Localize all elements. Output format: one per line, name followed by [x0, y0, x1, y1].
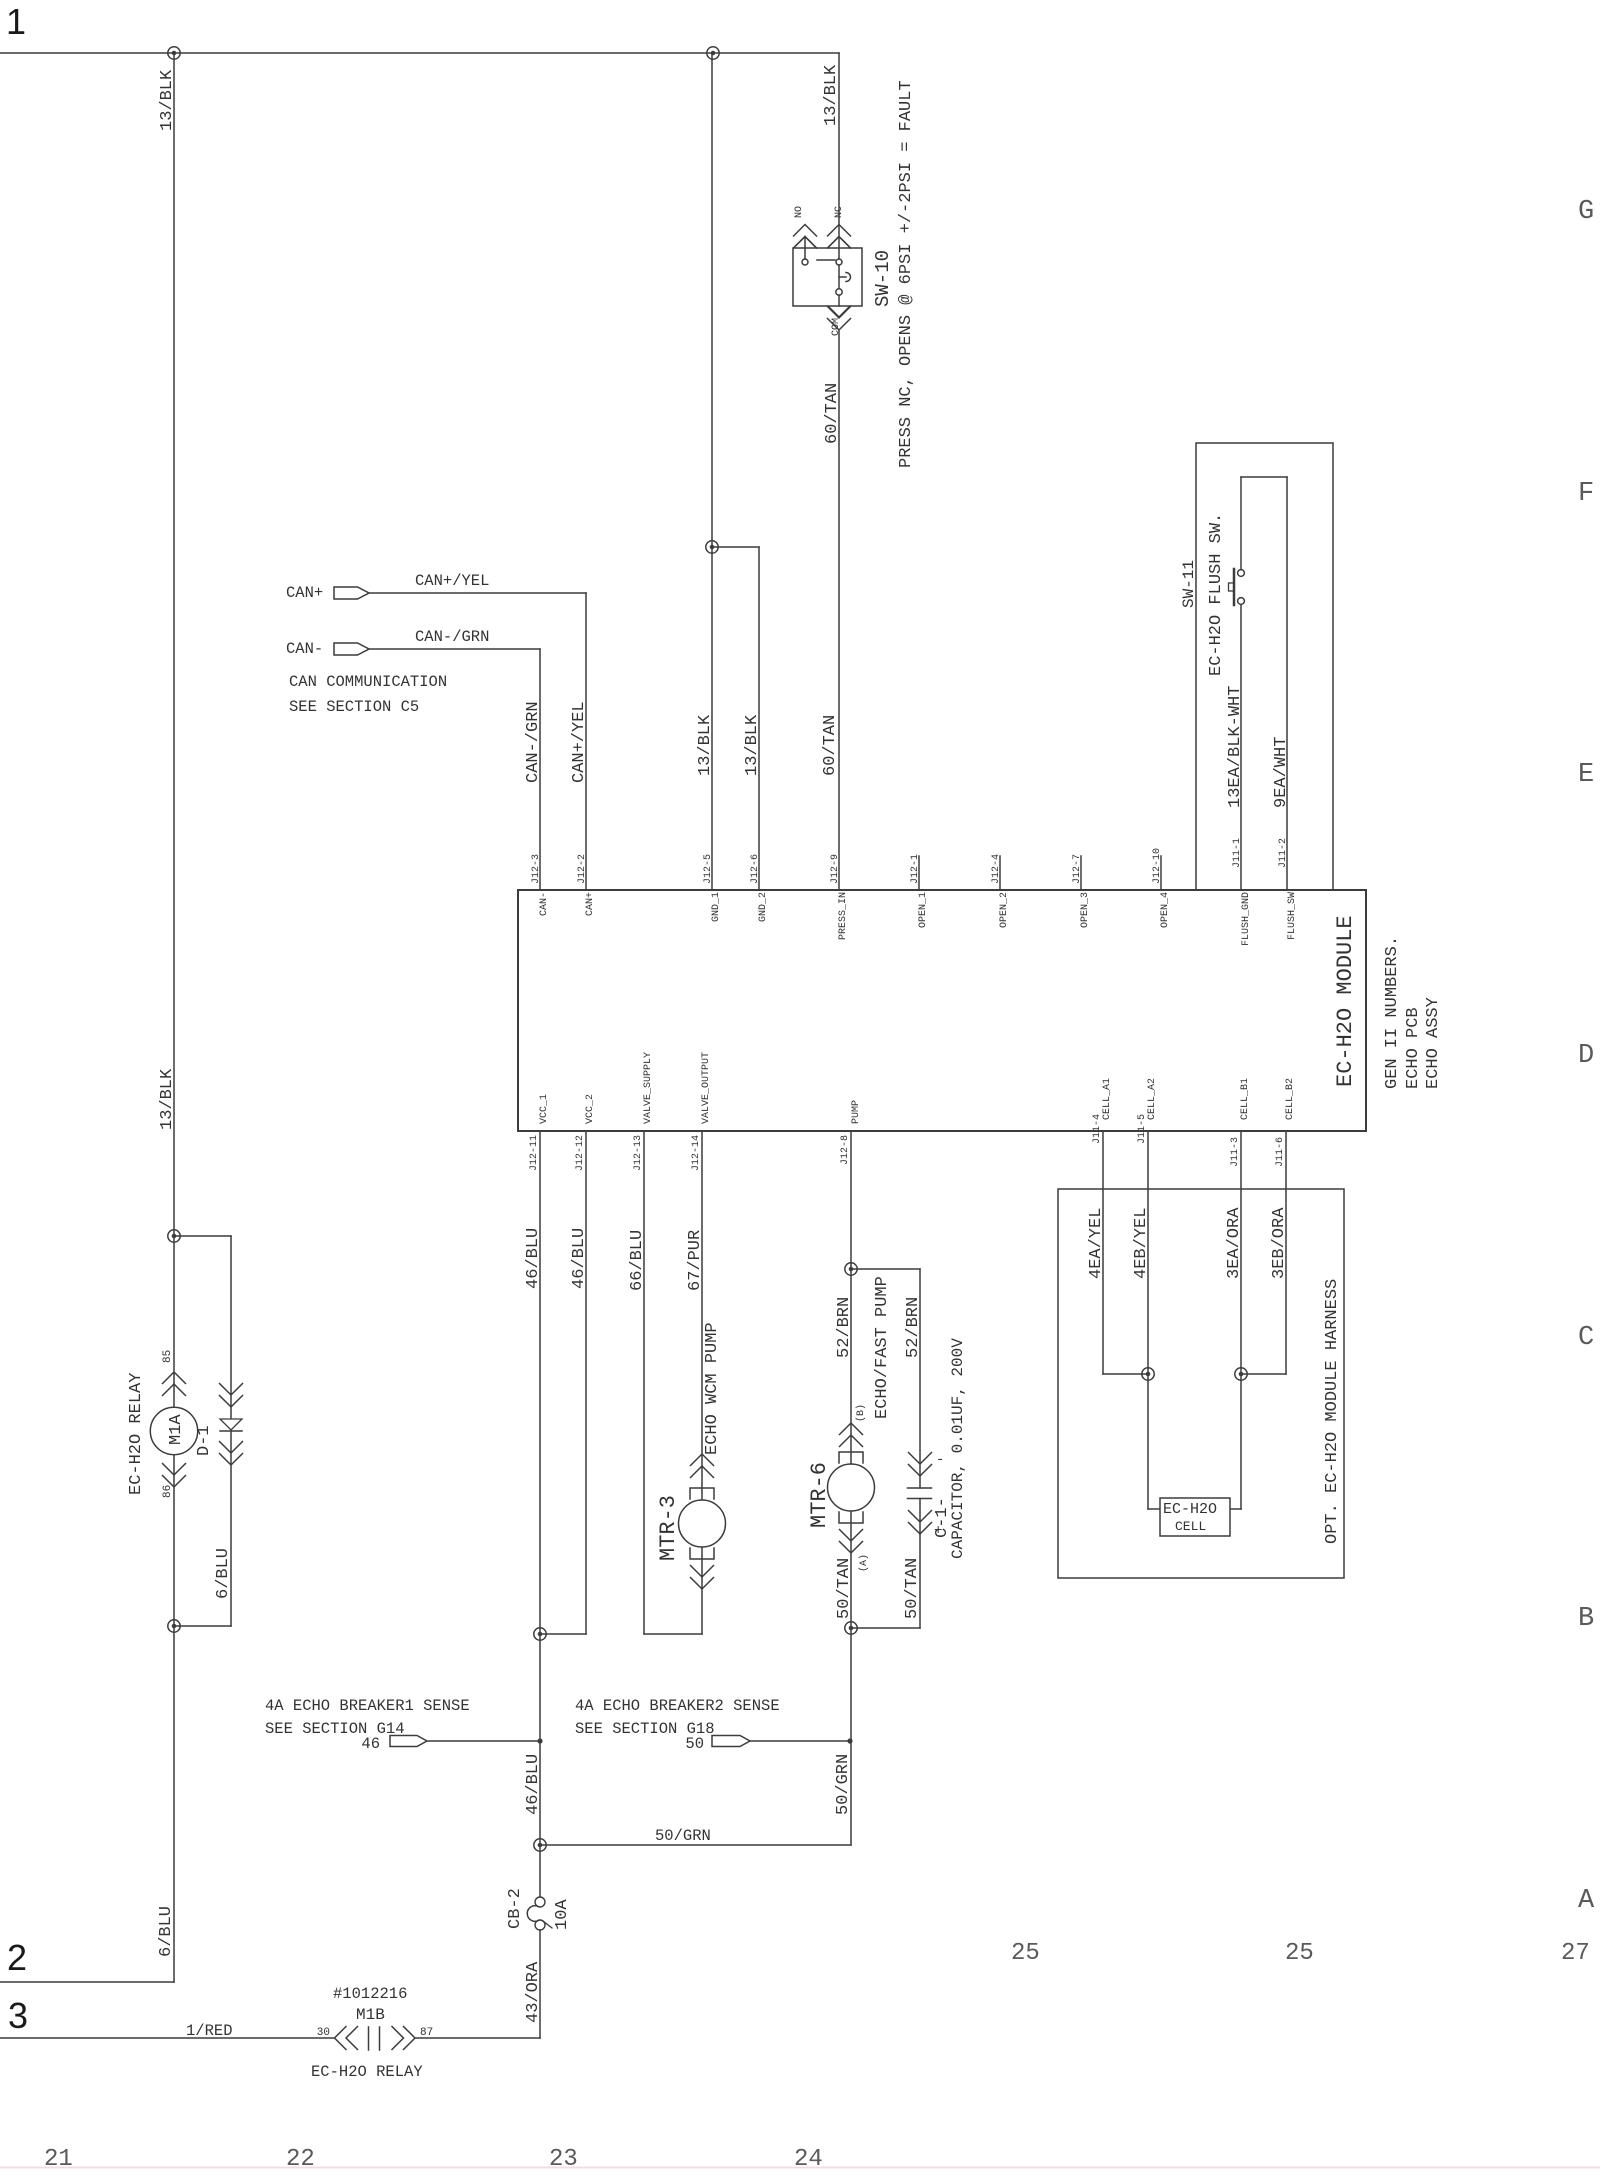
- motor MTR-3 connector bottom: [691, 1566, 714, 1578]
- svg-text:13/BLK: 13/BLK: [158, 69, 177, 131]
- wire 52/BRN cap branch: [851, 1268, 920, 1270]
- wire 1/RED row3: [0, 2037, 335, 2039]
- svg-text:4EB/YEL: 4EB/YEL: [1132, 1208, 1151, 1279]
- relay M1A connector 86: [163, 1464, 186, 1476]
- svg-text:10A: 10A: [553, 1899, 572, 1930]
- junction 13/BLK row1-right: [707, 47, 719, 59]
- svg-text:46/BLU: 46/BLU: [524, 1754, 543, 1815]
- junction 13/BLK row1-left: [168, 47, 180, 59]
- capacitor C-1 plates: [908, 1487, 932, 1489]
- svg-text:CELL_A1: CELL_A1: [1102, 1078, 1113, 1120]
- motor MTR-6 body: [828, 1464, 875, 1511]
- svg-text:J12-6: J12-6: [750, 854, 761, 884]
- motor MTR-6 connector bottom: [840, 1530, 863, 1542]
- svg-text:CAN+: CAN+: [286, 584, 323, 602]
- svg-text:E: E: [1578, 760, 1594, 790]
- svg-text:(B): (B): [855, 1404, 867, 1422]
- svg-text:CAN-/GRN: CAN-/GRN: [415, 628, 489, 646]
- svg-text:B: B: [1578, 1604, 1594, 1634]
- svg-text:J12-2: J12-2: [577, 854, 588, 884]
- junction relay top: [168, 1230, 180, 1242]
- svg-text:MTR-6: MTR-6: [807, 1462, 832, 1528]
- svg-text:J12-10: J12-10: [1152, 848, 1163, 884]
- capacitor C-1 connector bottom: [909, 1511, 932, 1523]
- junction 52/BRN split: [845, 1263, 857, 1275]
- svg-text:J11-1: J11-1: [1232, 838, 1243, 868]
- wire row-2: [0, 1981, 174, 1983]
- motor MTR-6 terminal top: [839, 1452, 863, 1463]
- junction cell B: [1235, 1368, 1247, 1380]
- svg-text:27: 27: [1561, 1940, 1590, 1967]
- svg-text:J11-3: J11-3: [1230, 1137, 1241, 1167]
- svg-text:-: -: [936, 1452, 944, 1468]
- svg-text:50/GRN: 50/GRN: [655, 1827, 711, 1845]
- svg-text:J12-1: J12-1: [910, 854, 921, 884]
- junction 50 sense: [847, 1738, 852, 1743]
- svg-text:A: A: [1578, 1886, 1595, 1916]
- svg-text:PUMP: PUMP: [851, 1100, 862, 1124]
- svg-text:EC-H2O RELAY: EC-H2O RELAY: [127, 1373, 146, 1495]
- page edge strip: [0, 2167, 1600, 2169]
- svg-text:CAPACITOR, 0.01UF, 200V: CAPACITOR, 0.01UF, 200V: [949, 1338, 967, 1559]
- junction 46/BLU: [534, 1628, 546, 1640]
- svg-text:GND_1: GND_1: [711, 892, 722, 922]
- svg-text:J12-9: J12-9: [830, 854, 841, 884]
- svg-text:3: 3: [8, 1995, 28, 2036]
- switch SW-10 NO contact: [802, 259, 808, 265]
- wire 67/PUR J12-14: [701, 1131, 703, 1634]
- svg-text:CB-2: CB-2: [506, 1888, 525, 1929]
- svg-text:CAN-: CAN-: [539, 892, 550, 916]
- svg-text:50/GRN: 50/GRN: [834, 1754, 853, 1815]
- svg-text:46: 46: [361, 1735, 380, 1753]
- junction relay bottom: [168, 1620, 180, 1632]
- connector 50 arrow: [712, 1736, 750, 1747]
- svg-text:#1012216: #1012216: [333, 1985, 407, 2003]
- svg-text:D: D: [1578, 1041, 1594, 1071]
- switch SW-10 NO connector: [794, 225, 817, 237]
- junction 46 sense: [537, 1738, 542, 1743]
- svg-text:2: 2: [7, 1937, 27, 1978]
- svg-text:J12-4: J12-4: [991, 854, 1002, 884]
- svg-text:CELL: CELL: [1175, 1519, 1206, 1534]
- svg-text:86: 86: [162, 1485, 174, 1498]
- svg-text:6/BLU: 6/BLU: [214, 1548, 233, 1599]
- svg-text:GEN II NUMBERS.: GEN II NUMBERS.: [1383, 936, 1402, 1089]
- wire row-1 13/BLK bus: [0, 52, 839, 54]
- svg-text:46/BLU: 46/BLU: [524, 1228, 543, 1289]
- svg-text:13EA/BLK-WHT: 13EA/BLK-WHT: [1226, 686, 1245, 808]
- breaker CB-2: [535, 1897, 545, 1907]
- svg-text:NC: NC: [834, 206, 845, 218]
- wire SW-11 top link: [1241, 476, 1287, 478]
- svg-text:CELL_B2: CELL_B2: [1285, 1078, 1296, 1120]
- svg-text:60/TAN: 60/TAN: [823, 383, 842, 444]
- svg-text:PRESS_IN: PRESS_IN: [838, 892, 849, 940]
- wire 13EA/BLK-WHT: [1240, 477, 1242, 569]
- svg-text:43/ORA: 43/ORA: [524, 1961, 543, 2023]
- svg-text:J12-7: J12-7: [1072, 854, 1083, 884]
- wire CAN+/YEL: [369, 592, 586, 594]
- switch SW-10 body: [793, 248, 862, 306]
- switch SW-10 actuator: [839, 276, 846, 278]
- svg-text:VCC_2: VCC_2: [585, 1094, 596, 1124]
- svg-text:G: G: [1578, 197, 1594, 227]
- diode D-1: [220, 1419, 242, 1430]
- module EC-H2O MODULE body: [518, 890, 1366, 1131]
- switch SW-10 NC contact: [836, 259, 842, 265]
- wire 66/BLU J12-13: [643, 1131, 645, 1634]
- diode D-1 connector top: [220, 1384, 243, 1396]
- wire 13/BLK branch to J12-6: [712, 546, 759, 548]
- connector CAN- off-page arrow: [334, 643, 369, 655]
- svg-text:13/BLK: 13/BLK: [696, 714, 715, 776]
- svg-text:CAN COMMUNICATION: CAN COMMUNICATION: [289, 673, 447, 691]
- svg-text:ECHO/FAST PUMP: ECHO/FAST PUMP: [873, 1276, 892, 1419]
- capacitor C-1 connector top: [909, 1453, 932, 1465]
- svg-text:OPEN_2: OPEN_2: [999, 892, 1010, 928]
- junction 50/TAN merge: [845, 1622, 857, 1634]
- svg-text:EC-H2O MODULE: EC-H2O MODULE: [1333, 915, 1358, 1087]
- wire 4EB/YEL: [1147, 1131, 1149, 1509]
- wire D-1 branch: [174, 1235, 231, 1237]
- svg-text:4A ECHO BREAKER1 SENSE: 4A ECHO BREAKER1 SENSE: [265, 1697, 470, 1715]
- svg-text:SEE SECTION C5: SEE SECTION C5: [289, 698, 419, 716]
- svg-text:22: 22: [286, 2146, 315, 2170]
- wire 50 sense: [750, 1740, 850, 1742]
- svg-text:ECHO PCB: ECHO PCB: [1404, 1007, 1423, 1089]
- motor MTR-3 body: [679, 1500, 726, 1547]
- svg-text:MTR-3: MTR-3: [656, 1495, 681, 1561]
- pin J12-4 open stub: [999, 856, 1001, 890]
- svg-text:85: 85: [162, 1350, 174, 1363]
- svg-text:ECHO WCM PUMP: ECHO WCM PUMP: [703, 1322, 722, 1455]
- box OPT. EC-H2O MODULE HARNESS: [1058, 1189, 1344, 1578]
- svg-text:EC-H2O: EC-H2O: [1163, 1501, 1217, 1518]
- svg-text:3EB/ORA: 3EB/ORA: [1270, 1207, 1289, 1279]
- svg-text:CAN-: CAN-: [286, 640, 323, 658]
- svg-text:30: 30: [317, 2027, 330, 2039]
- switch SW-11 box: [1196, 443, 1333, 890]
- svg-text:4EA/YEL: 4EA/YEL: [1087, 1208, 1106, 1279]
- wire 6/BLU to row2: [173, 1626, 175, 1982]
- wire 50/GRN link: [540, 1844, 851, 1846]
- svg-text:EC-H2O FLUSH SW.: EC-H2O FLUSH SW.: [1207, 513, 1226, 676]
- pin J12-10 open stub: [1160, 856, 1162, 890]
- wire 60/TAN COM to J12-9: [838, 330, 840, 890]
- svg-text:J12-11: J12-11: [529, 1135, 540, 1171]
- svg-text:OPEN_1: OPEN_1: [918, 892, 929, 928]
- wire 43/ORA link: [415, 2037, 540, 2039]
- svg-text:13/BLK: 13/BLK: [743, 714, 762, 776]
- svg-text:13/BLK: 13/BLK: [158, 1068, 177, 1130]
- svg-text:3EA/ORA: 3EA/ORA: [1225, 1207, 1244, 1279]
- wire 3EA/ORA: [1240, 1131, 1242, 1509]
- relay coil M1A: [150, 1407, 197, 1454]
- wire 46/BLU J12-11 drop: [539, 1131, 541, 1897]
- switch SW-10 NC connector: [828, 225, 851, 237]
- svg-text:23: 23: [549, 2146, 578, 2170]
- svg-text:OPEN_4: OPEN_4: [1160, 892, 1171, 928]
- wire 13/BLK to J12-5: [711, 53, 713, 890]
- svg-text:+: +: [934, 1523, 942, 1539]
- svg-text:D-1: D-1: [195, 1425, 214, 1456]
- svg-text:OPT. EC-H2O MODULE HARNESS: OPT. EC-H2O MODULE HARNESS: [1323, 1279, 1342, 1544]
- svg-text:13/BLK: 13/BLK: [822, 64, 841, 126]
- svg-text:87: 87: [420, 2027, 433, 2039]
- diode D-1 connector bottom: [220, 1442, 243, 1454]
- svg-text:J12-5: J12-5: [703, 854, 714, 884]
- svg-text:J12-3: J12-3: [531, 854, 542, 884]
- svg-text:NO: NO: [794, 206, 805, 218]
- wire CAN-/GRN: [369, 648, 540, 650]
- svg-text:ECHO ASSY: ECHO ASSY: [1424, 997, 1443, 1089]
- svg-text:SW-11: SW-11: [1180, 560, 1198, 608]
- svg-text:CAN+/YEL: CAN+/YEL: [415, 572, 489, 590]
- svg-text:25: 25: [1285, 1940, 1314, 1967]
- junction 50/GRN tap: [534, 1839, 546, 1851]
- svg-text:OPEN_3: OPEN_3: [1080, 892, 1091, 928]
- svg-text:FLUSH_GND: FLUSH_GND: [1241, 892, 1252, 946]
- wire 3EB/ORA: [1285, 1131, 1287, 1374]
- switch SW-10 armature: [817, 259, 835, 261]
- wire 13/BLK to SW-10 NC: [838, 53, 840, 259]
- svg-text:C: C: [1578, 1323, 1594, 1353]
- svg-text:VALVE_OUTPUT: VALVE_OUTPUT: [701, 1052, 712, 1124]
- connector CAN+ off-page arrow: [334, 587, 369, 599]
- svg-text:FLUSH_SW: FLUSH_SW: [1287, 892, 1298, 940]
- relay contact M1B: [335, 2027, 347, 2050]
- svg-text:9EA/WHT: 9EA/WHT: [1272, 737, 1291, 808]
- svg-text:COM: COM: [831, 318, 842, 336]
- svg-text:PRESS NC, OPENS @ 6PSI +/-2PSI: PRESS NC, OPENS @ 6PSI +/-2PSI = FAULT: [897, 80, 916, 468]
- svg-text:60/TAN: 60/TAN: [821, 715, 840, 776]
- motor MTR-3 terminal bottom: [690, 1548, 714, 1559]
- svg-text:24: 24: [794, 2146, 823, 2170]
- svg-text:CAN-/GRN: CAN-/GRN: [524, 701, 543, 783]
- switch SW-11 pushbutton: [1238, 570, 1245, 577]
- svg-text:SEE SECTION G14: SEE SECTION G14: [265, 1720, 405, 1738]
- connector 46 arrow: [390, 1736, 427, 1747]
- junction 13/BLK GND split: [706, 541, 718, 553]
- wire 13/BLK left drop: [173, 53, 175, 1236]
- svg-text:CAN+: CAN+: [585, 892, 596, 916]
- svg-text:VALVE_SUPPLY: VALVE_SUPPLY: [643, 1052, 654, 1124]
- motor MTR-6 terminal bottom: [839, 1512, 863, 1523]
- svg-text:4A ECHO BREAKER2 SENSE: 4A ECHO BREAKER2 SENSE: [575, 1697, 780, 1715]
- svg-text:J12-8: J12-8: [840, 1135, 851, 1165]
- motor MTR-6 connector top: [840, 1423, 863, 1435]
- svg-text:SW-10: SW-10: [872, 250, 894, 307]
- svg-text:CELL_A2: CELL_A2: [1147, 1078, 1158, 1120]
- wire 46/BLU J12-12 drop: [585, 1131, 587, 1634]
- svg-text:52/BRN: 52/BRN: [835, 1297, 854, 1358]
- wire 4EA/YEL: [1102, 1131, 1104, 1374]
- svg-text:(A): (A): [858, 1554, 870, 1572]
- svg-text:CAN+/YEL: CAN+/YEL: [570, 701, 589, 783]
- svg-text:25: 25: [1011, 1940, 1040, 1967]
- svg-text:50: 50: [685, 1735, 704, 1753]
- motor MTR-3 terminal top: [690, 1488, 714, 1499]
- wire 52/BRN J12-8 drop: [850, 1131, 852, 1845]
- svg-text:VCC_1: VCC_1: [539, 1094, 550, 1124]
- svg-text:J12-13: J12-13: [633, 1135, 644, 1171]
- wire M1A coil segment: [173, 1236, 175, 1626]
- svg-text:J11-6: J11-6: [1275, 1137, 1286, 1167]
- switch SW-10 COM connector: [828, 306, 850, 317]
- svg-text:50/TAN: 50/TAN: [903, 1558, 922, 1619]
- svg-text:67/PUR: 67/PUR: [686, 1230, 705, 1291]
- cell EC-H2O CELL box: [1160, 1498, 1230, 1536]
- svg-text:GND_2: GND_2: [758, 892, 769, 922]
- wire 46 sense: [427, 1740, 540, 1742]
- svg-text:46/BLU: 46/BLU: [570, 1228, 589, 1289]
- svg-text:M1B: M1B: [356, 2006, 385, 2024]
- relay M1A connector 85: [163, 1372, 186, 1384]
- pin J12-7 open stub: [1080, 856, 1082, 890]
- pin J12-1 open stub: [918, 856, 920, 890]
- wire SW-11 to J11-1: [1240, 605, 1242, 891]
- svg-text:J12-14: J12-14: [691, 1135, 702, 1171]
- svg-text:1/RED: 1/RED: [186, 2022, 233, 2040]
- svg-text:F: F: [1578, 479, 1594, 509]
- wire 50/TAN cap return: [919, 1499, 921, 1629]
- svg-text:50/TAN: 50/TAN: [835, 1558, 854, 1619]
- wire 9EA/WHT to J11-2: [1286, 477, 1288, 890]
- motor MTR-3 connector top: [691, 1454, 714, 1466]
- svg-text:21: 21: [44, 2146, 73, 2170]
- svg-text:CELL_B1: CELL_B1: [1240, 1078, 1251, 1120]
- svg-text:J11-2: J11-2: [1278, 838, 1289, 868]
- svg-text:1: 1: [6, 1, 26, 42]
- svg-text:6/BLU: 6/BLU: [157, 1906, 176, 1957]
- wire 43/ORA: [539, 1930, 541, 2038]
- svg-text:M1A: M1A: [167, 1414, 186, 1445]
- svg-text:EC-H2O RELAY: EC-H2O RELAY: [311, 2063, 423, 2081]
- svg-text:J12-12: J12-12: [575, 1135, 586, 1171]
- svg-text:52/BRN: 52/BRN: [904, 1297, 923, 1358]
- svg-text:66/BLU: 66/BLU: [628, 1230, 647, 1291]
- junction cell A: [1142, 1368, 1154, 1380]
- switch SW-10 COM contact: [836, 289, 842, 295]
